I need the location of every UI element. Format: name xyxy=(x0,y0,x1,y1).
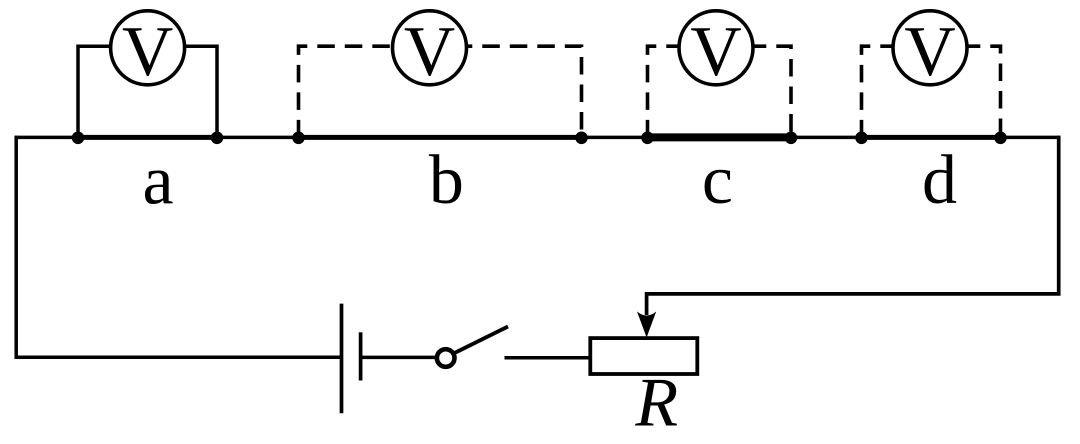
node dot a-left xyxy=(72,132,85,145)
switch pivot circle xyxy=(437,349,455,367)
battery short plate xyxy=(359,332,363,380)
node dot c-left xyxy=(641,132,654,145)
voltmeter V2 connection loop (dashed) xyxy=(299,46,582,137)
voltmeter V1 circle xyxy=(111,11,185,85)
node dot a-right xyxy=(211,132,224,145)
wire: sample c segment (thick) xyxy=(648,133,792,141)
wire: switch to rheostat xyxy=(505,356,591,360)
switch lever xyxy=(455,327,509,354)
wire: top bus right thin segment xyxy=(1001,136,1061,140)
battery long plate xyxy=(340,304,344,414)
svg-text:R: R xyxy=(634,364,678,441)
wire: between b and c xyxy=(582,136,648,140)
wire: sample d segment xyxy=(862,135,1001,140)
wire: sample a segment xyxy=(78,135,217,140)
node dot b-left xyxy=(292,132,305,145)
voltmeter V4 connection loop (dashed) xyxy=(862,46,1001,137)
voltmeter V4 circle xyxy=(893,11,967,85)
node dot b-right xyxy=(575,132,588,145)
node dot d-left xyxy=(855,132,868,145)
svg-text:d: d xyxy=(922,142,957,219)
voltmeter V2 circle xyxy=(393,11,467,85)
svg-text:b: b xyxy=(429,142,464,219)
svg-text:c: c xyxy=(702,142,733,219)
voltmeter V3 circle xyxy=(679,11,753,85)
wire: between c and d xyxy=(791,136,862,140)
wire: right vertical side down to slider xyxy=(647,136,1059,315)
wire: left vertical side xyxy=(16,136,341,358)
wire: sample b segment xyxy=(299,135,582,140)
wire: battery to switch xyxy=(361,356,436,360)
svg-text:V: V xyxy=(404,13,455,91)
svg-text:V: V xyxy=(122,13,173,91)
svg-text:V: V xyxy=(690,13,741,91)
node dot d-right xyxy=(994,132,1007,145)
voltmeter V3 connection loop (dashed) xyxy=(648,46,792,137)
wire: top bus left thin segment xyxy=(15,136,79,140)
svg-text:a: a xyxy=(142,143,173,220)
rheostat R body xyxy=(590,338,697,374)
wire: between a and b xyxy=(217,136,299,140)
rheostat slider arrowhead xyxy=(637,312,656,338)
node dot c-right xyxy=(785,132,798,145)
svg-text:V: V xyxy=(904,13,955,91)
voltmeter V1 connection loop (solid) xyxy=(78,46,217,137)
